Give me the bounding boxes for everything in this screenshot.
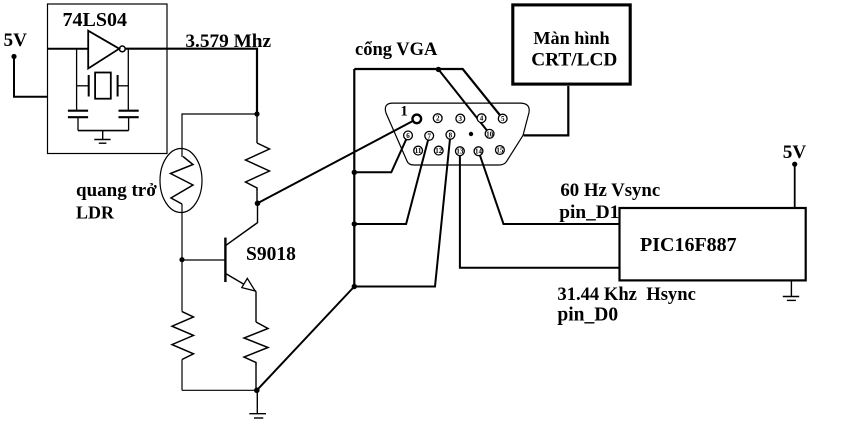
- transistor Q1 base bar: [224, 238, 226, 282]
- svg-text:5V: 5V: [4, 30, 28, 51]
- svg-text:31.44 Khz Hsync: 31.44 Khz Hsync: [557, 284, 695, 305]
- svg-text:Màn hình: Màn hình: [533, 28, 609, 48]
- wire inverter input: [48, 48, 89, 50]
- transistor Q1 collector diagonal: [225, 222, 258, 245]
- wire capacitors bottom: [78, 130, 129, 132]
- svg-text:74LS04: 74LS04: [63, 9, 127, 31]
- svg-text:1: 1: [400, 104, 408, 120]
- node 5V right dot: [792, 162, 797, 167]
- wire pin7 elbow: [354, 136, 429, 224]
- svg-text:7: 7: [427, 132, 431, 140]
- VGA connector DB15 shell: [385, 103, 529, 165]
- pin 12: [434, 146, 443, 155]
- svg-text:12: 12: [435, 147, 443, 155]
- wire pin1 diagonal: [258, 119, 417, 203]
- node collector dot: [255, 201, 261, 207]
- wire R1 lead top: [256, 114, 258, 143]
- wire emitter to R3: [255, 291, 257, 322]
- crystal Y1 body: [95, 73, 111, 99]
- wire 5V to 74LS04 box: [14, 57, 48, 97]
- svg-text:8: 8: [449, 131, 453, 139]
- capacitor C1 stub: [77, 117, 79, 130]
- svg-text:LDR: LDR: [76, 203, 115, 223]
- capacitor C1 top plate: [68, 110, 88, 112]
- capacitor C2 stub: [128, 117, 130, 130]
- pin 1: [413, 115, 422, 124]
- pin 10: [485, 129, 494, 138]
- wire pin14 vsync: [479, 151, 620, 224]
- pin 8: [446, 130, 455, 139]
- ground PIC: [783, 280, 799, 300]
- svg-text:60 Hz Vsync: 60 Hz Vsync: [560, 180, 660, 201]
- svg-text:2: 2: [436, 115, 440, 123]
- pin 7: [425, 131, 434, 140]
- pin 13: [456, 147, 465, 156]
- wire LDR to base node: [181, 204, 183, 312]
- ground main: [249, 390, 266, 418]
- node collector-top dot: [254, 111, 259, 116]
- capacitor C1 bottom plate: [68, 116, 88, 118]
- inverter U1A triangle: [88, 31, 119, 69]
- svg-text:4: 4: [480, 115, 484, 123]
- pin 3: [456, 114, 465, 123]
- pin 15: [496, 146, 505, 155]
- wire 3.579MHz output: [125, 49, 257, 114]
- pin 11: [414, 146, 423, 155]
- svg-text:3.579 Mhz: 3.579 Mhz: [185, 31, 271, 52]
- wire VGA bus vertical: [353, 69, 355, 287]
- wire R1 to collector node: [256, 191, 258, 203]
- svg-text:quang trở: quang trở: [76, 180, 157, 201]
- wire pin6 elbow: [354, 135, 408, 172]
- resistor R2 zigzag: [172, 312, 194, 360]
- crystal Y1 left wire: [77, 85, 89, 87]
- resistor R3 zigzag: [244, 322, 268, 365]
- wire bottom rail: [182, 389, 257, 391]
- photoresistor LDR ellipse: [160, 149, 202, 213]
- pin 9 dot: [469, 132, 473, 136]
- svg-text:15: 15: [496, 147, 504, 155]
- photoresistor LDR zigzag: [171, 157, 194, 205]
- capacitor C2 top plate: [119, 110, 139, 112]
- transistor Q1 emitter arrow: [242, 278, 255, 291]
- svg-text:5: 5: [501, 115, 505, 123]
- node bus dot B: [352, 221, 357, 226]
- node bus dot A: [352, 170, 357, 175]
- wire right feedback vertical: [127, 49, 129, 111]
- crystal Y1 right electrode bar: [117, 75, 119, 97]
- svg-text:13: 13: [456, 148, 464, 156]
- pin 6: [404, 131, 413, 140]
- svg-text:PIC16F887: PIC16F887: [640, 234, 737, 256]
- wire R3 to ground node: [255, 365, 257, 390]
- wire to pin10: [438, 69, 489, 133]
- svg-text:5V: 5V: [783, 142, 807, 163]
- wire R2 to bottom: [181, 360, 183, 391]
- svg-text:11: 11: [415, 147, 422, 155]
- monitor box: [513, 5, 630, 84]
- pin 14: [474, 147, 483, 156]
- pin 5: [498, 114, 507, 123]
- wire VGA to monitor: [524, 86, 569, 135]
- resistor R1 zigzag: [246, 143, 270, 191]
- node bus dot C: [352, 284, 357, 289]
- svg-text:6: 6: [406, 132, 410, 140]
- IC U2 PIC16F887 box: [620, 208, 806, 280]
- svg-text:CRT/LCD: CRT/LCD: [531, 50, 617, 71]
- node top dot: [436, 67, 441, 72]
- wire base: [182, 259, 225, 261]
- capacitor C2 bottom plate: [119, 116, 139, 118]
- wire collector vertical: [257, 203, 259, 222]
- wire 5V to PIC: [794, 164, 796, 208]
- wire top elbow to pin5: [354, 69, 502, 119]
- crystal Y1 right wire: [118, 85, 129, 87]
- svg-text:10: 10: [486, 130, 494, 138]
- svg-text:pin_D1: pin_D1: [559, 202, 619, 223]
- ground oscillator: [94, 131, 110, 144]
- node ground dot: [254, 388, 260, 394]
- wire node to LDR top: [182, 114, 257, 157]
- wire pin8 elbow: [354, 135, 450, 287]
- pin 2: [433, 114, 442, 123]
- node base dot: [179, 257, 184, 262]
- svg-text:14: 14: [475, 148, 483, 156]
- wire pin13 hsync: [460, 151, 620, 268]
- crystal Y1 left electrode bar: [88, 75, 90, 97]
- wire ground to VGA bus: [257, 287, 355, 391]
- IC U1 74LS04 box: [48, 4, 168, 154]
- inverter output bubble: [119, 46, 125, 52]
- transistor Q1 emitter diagonal: [225, 273, 256, 291]
- pin 4: [477, 114, 486, 123]
- node 5V left dot: [11, 54, 16, 59]
- wire left feedback vertical: [76, 49, 78, 111]
- svg-text:cổng VGA: cổng VGA: [355, 40, 438, 60]
- svg-text:3: 3: [459, 115, 463, 123]
- svg-text:pin_D0: pin_D0: [557, 305, 618, 326]
- svg-text:S9018: S9018: [246, 244, 296, 265]
